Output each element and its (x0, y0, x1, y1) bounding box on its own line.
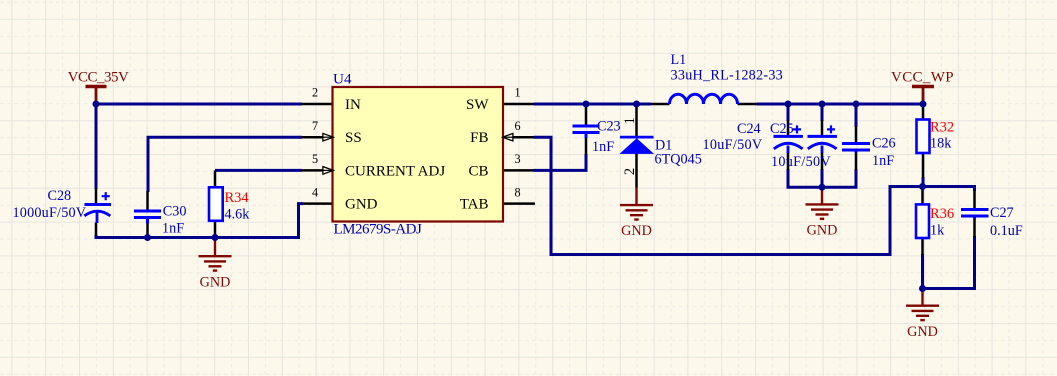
pin C25 top (821, 120, 824, 135)
svg-text:GND: GND (907, 324, 938, 340)
wire capacitor group ground rail (788, 169, 856, 187)
svg-text:0.1uF: 0.1uF (990, 223, 1023, 239)
pin 2 IN (302, 103, 333, 106)
node VCC_WP at C24 (785, 101, 792, 108)
ground D1 anode (620, 188, 653, 220)
capacitor C26 (842, 144, 870, 153)
pin R32 bottom (922, 153, 925, 178)
svg-text:6: 6 (514, 119, 520, 133)
svg-text:6TQ045: 6TQ045 (655, 152, 702, 168)
pin arrow CURRENT ADJ input (323, 167, 334, 175)
pin C25 bottom (821, 152, 824, 170)
inductor L1 (670, 94, 738, 104)
svg-text:1nF: 1nF (592, 139, 614, 155)
svg-text:GND: GND (807, 223, 838, 239)
svg-text:8: 8 (514, 185, 520, 199)
pin 8 TAB (503, 202, 535, 205)
pin numbers of U4 (312, 86, 521, 200)
wire C27 bottom to ground node (923, 236, 975, 289)
svg-text:18k: 18k (930, 136, 952, 152)
wire R36 bottom to ground node (921, 254, 924, 289)
wire ground rail up to U4 pin 4 (299, 204, 304, 239)
wire R32 bottom to node (922, 177, 925, 187)
svg-text:C26: C26 (872, 136, 896, 152)
wire CURRENT ADJ to R34 (215, 169, 302, 172)
wire CB to C23 (534, 154, 587, 170)
capacitor C27 (961, 210, 989, 219)
node VCC_WP at C25 (819, 101, 826, 108)
capacitor C30 (134, 211, 161, 224)
svg-text:IN: IN (345, 97, 361, 113)
svg-text:VCC_35V: VCC_35V (68, 70, 129, 86)
pin L1 right (738, 103, 757, 106)
node ground rail at R34 (212, 234, 219, 241)
wire C25 drop (821, 104, 824, 121)
resistor R32 (917, 120, 930, 154)
diode D1 (620, 136, 654, 139)
pin arrow SS input (323, 133, 334, 141)
svg-text:C24: C24 (737, 121, 761, 137)
svg-text:CURRENT ADJ: CURRENT ADJ (345, 163, 445, 179)
pin C24 top (787, 120, 790, 135)
ground capacitor group (806, 187, 839, 219)
pin 4 GND (303, 202, 333, 205)
svg-text:1k: 1k (930, 223, 945, 239)
svg-text:7: 7 (312, 119, 318, 133)
pin C27 bottom (973, 218, 976, 238)
svg-text:C30: C30 (163, 203, 187, 219)
pin R36 top (921, 187, 924, 205)
svg-text:GND: GND (345, 197, 378, 213)
svg-text:C23: C23 (597, 119, 621, 135)
wire SW node to L1 (534, 103, 652, 106)
svg-text:U4: U4 (333, 71, 352, 88)
wire C25 bottom (821, 169, 824, 187)
svg-text:L1: L1 (671, 52, 687, 68)
pin arrow FB input (503, 133, 513, 141)
svg-text:C25: C25 (770, 121, 794, 137)
pin R32 top (922, 104, 925, 120)
svg-text:5: 5 (312, 152, 318, 166)
svg-text:1: 1 (622, 117, 638, 124)
pin C24 bottom (787, 152, 790, 170)
node SW at C23 (583, 101, 590, 108)
capacitor C25 (polarized) (808, 125, 837, 153)
svg-text:2: 2 (622, 168, 638, 175)
ground output divider (906, 289, 939, 321)
wire L1 to VCC_WP rail (757, 103, 924, 106)
pin C30 top (146, 191, 149, 210)
wire C26 drop (855, 104, 858, 127)
svg-text:GND: GND (621, 223, 652, 239)
svg-text:1: 1 (514, 86, 520, 100)
svg-text:LM2679S-ADJ: LM2679S-ADJ (334, 222, 423, 238)
capacitor C23 (573, 126, 600, 138)
pin C28 bottom (95, 223, 98, 237)
node feedback divider node (919, 183, 926, 190)
regulator U4 body (333, 87, 504, 222)
svg-text:VCC_WP: VCC_WP (891, 70, 954, 86)
svg-text:10uF/50V: 10uF/50V (771, 154, 831, 170)
node VCC_35V junction (93, 101, 100, 108)
svg-text:4: 4 (312, 185, 318, 199)
pins of U4 and component pin stubs (black) (96, 104, 975, 255)
svg-text:R34: R34 (225, 190, 250, 206)
pin D1 anode (635, 154, 638, 188)
node SW at D1 (633, 101, 640, 108)
svg-text:4.6k: 4.6k (225, 207, 251, 223)
svg-text:SS: SS (345, 130, 362, 146)
pin R36 bottom (921, 238, 924, 255)
svg-text:1nF: 1nF (162, 220, 184, 236)
resistor R34 (209, 187, 223, 221)
node VCC_WP at R32 (920, 101, 927, 108)
svg-text:1000uF/50V: 1000uF/50V (13, 205, 87, 221)
svg-text:C28: C28 (48, 188, 72, 204)
pin 3 CB (503, 169, 534, 172)
wire VCC_35V rail to IN (96, 103, 302, 106)
svg-text:FB: FB (470, 130, 488, 146)
svg-text:R32: R32 (930, 120, 954, 136)
svg-text:TAB: TAB (460, 197, 489, 213)
pin 5 CURRENT ADJ (302, 169, 323, 172)
ground left rail (199, 239, 232, 271)
svg-text:CB: CB (468, 163, 488, 179)
wire FB feedback run to divider (534, 137, 923, 254)
svg-text:R36: R36 (930, 206, 954, 222)
pin C28 top (95, 188, 98, 203)
resistor R36 (916, 204, 929, 238)
wire VCC_35V down to C28 (95, 104, 98, 189)
svg-text:33uH_RL-1282-33: 33uH_RL-1282-33 (671, 68, 784, 84)
pin R34 top (214, 170, 217, 187)
pin C23 bottom (585, 138, 588, 156)
pin R34 bottom (214, 221, 217, 238)
pin 1 SW (503, 103, 534, 106)
pin names of U4 (345, 97, 489, 213)
wire C24 drop (787, 104, 790, 121)
wire divider node to C27 (923, 187, 975, 192)
pin C23 top (585, 105, 588, 125)
node ground rail at C30 (144, 234, 151, 241)
power port VCC_35V (86, 87, 107, 105)
svg-text:C27: C27 (990, 205, 1014, 221)
node divider ground node (919, 285, 926, 292)
pin C26 bottom (855, 152, 858, 171)
pin L1 left (651, 103, 670, 106)
svg-text:SW: SW (466, 97, 489, 113)
wire SS to C30 (148, 137, 302, 192)
svg-text:GND: GND (200, 274, 231, 290)
svg-text:1nF: 1nF (872, 153, 894, 169)
svg-text:2: 2 (312, 86, 318, 100)
node capacitor ground junction (819, 184, 826, 191)
pin C30 bottom (146, 223, 149, 237)
capacitor C24 (polarized) (774, 125, 803, 153)
pin C27 top (973, 190, 976, 208)
pin D1 cathode (635, 104, 638, 136)
power port VCC_WP (912, 87, 934, 105)
svg-text:10uF/50V: 10uF/50V (703, 137, 763, 153)
capacitor C28 (polarized) (84, 192, 111, 223)
wire bottom-left ground rail (96, 235, 300, 238)
svg-text:3: 3 (514, 152, 520, 166)
pin C26 top (855, 126, 858, 142)
pin 6 FB (513, 136, 534, 139)
pin 7 SS (302, 136, 323, 139)
node VCC_WP at C26 (853, 101, 860, 108)
